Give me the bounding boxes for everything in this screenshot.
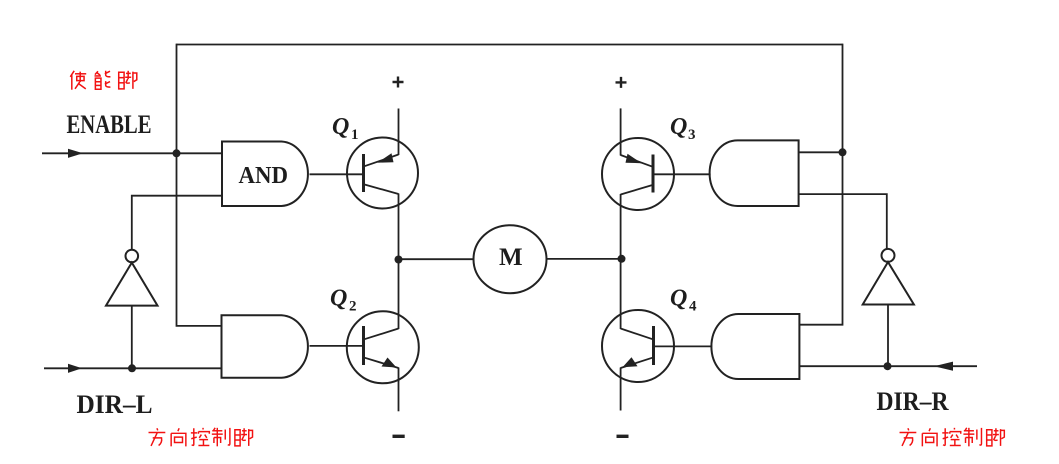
label fangxiang red bottom right (900, 428, 1005, 446)
wire motor node left (399, 258, 475, 260)
inverter R triangle (863, 262, 914, 305)
transistor Q4 (602, 310, 674, 382)
svg-text:Q: Q (332, 114, 349, 140)
transistor Q2 (347, 311, 419, 383)
svg-text:AND: AND (239, 163, 289, 189)
power minus right (617, 435, 629, 438)
and-gate AND4 lower right (711, 314, 799, 379)
wire AND3 input2 to inverter R (799, 194, 887, 249)
label fangxiang red bottom left (149, 428, 253, 446)
wire motor node right (547, 258, 622, 260)
transistor Q3 (602, 138, 674, 210)
label shineng red top left (70, 71, 136, 90)
wire Q3 base to AND3 (653, 173, 711, 175)
wire Q1 collector to motor node (398, 194, 400, 260)
wire inverter R input (887, 305, 889, 367)
and-gate AND2 lower left (222, 315, 308, 378)
node DIR-R junction (884, 362, 892, 370)
svg-text:3: 3 (688, 127, 696, 143)
wire left enable drop to lower AND input (177, 44, 222, 326)
and-gate AND3 upper right (710, 140, 799, 206)
wire Q3 emitter to plus (620, 108, 622, 155)
wire Q4 base to AND4 (654, 345, 713, 347)
wire DIR-L input lead (44, 367, 222, 369)
power minus left (393, 435, 405, 438)
node motor left junction (395, 256, 403, 264)
svg-text:M: M (499, 244, 523, 271)
arrow DIR-R input (934, 362, 953, 371)
node motor right junction (618, 255, 626, 263)
wire Q3 collector to motor node (620, 194, 622, 259)
power plus right (616, 77, 627, 88)
svg-text:Q: Q (670, 114, 687, 140)
wire AND2 output to Q2 base (310, 345, 364, 347)
node enable right junction (839, 148, 847, 156)
svg-text:DIR–R: DIR–R (877, 387, 949, 416)
svg-text:Q: Q (670, 286, 687, 312)
svg-text:2: 2 (349, 299, 357, 315)
wire Q1 emitter to plus (398, 109, 400, 156)
wire right enable drop to lower AND input (799, 44, 842, 325)
transistor Q1 (347, 138, 418, 209)
svg-text:4: 4 (689, 299, 697, 315)
inverter L triangle (106, 263, 158, 306)
svg-text:Q: Q (330, 286, 347, 312)
wire top rail (177, 44, 843, 46)
motor M (474, 225, 547, 293)
wire Q4 emitter to minus (620, 368, 622, 411)
arrow DIR-L input (68, 364, 82, 373)
wire AND1 output to Q1 base (310, 173, 364, 175)
arrow ENABLE input (68, 149, 83, 158)
wire Q2 emitter to minus (398, 368, 400, 412)
svg-text:1: 1 (351, 127, 359, 143)
node ENABLE junction (173, 149, 181, 157)
wire ENABLE input lead (42, 152, 222, 154)
power plus left (393, 77, 404, 88)
inverter R bubble (882, 249, 895, 262)
wire DIR-R lead with AND4 input2 (799, 365, 977, 367)
wire Q4 collector to motor node (620, 259, 622, 329)
svg-text:DIR–L: DIR–L (77, 390, 153, 419)
inverter L bubble (126, 250, 139, 263)
wire Q2 collector to motor node (398, 260, 400, 330)
node DIR-L junction (128, 364, 136, 372)
wire AND3 input1 to enable junction (799, 151, 843, 153)
wire inverter L input (131, 306, 133, 369)
wire inverter L output to AND1 input 2 (132, 196, 222, 250)
svg-text:ENABLE: ENABLE (67, 110, 152, 139)
and-gate AND1 (222, 142, 308, 207)
